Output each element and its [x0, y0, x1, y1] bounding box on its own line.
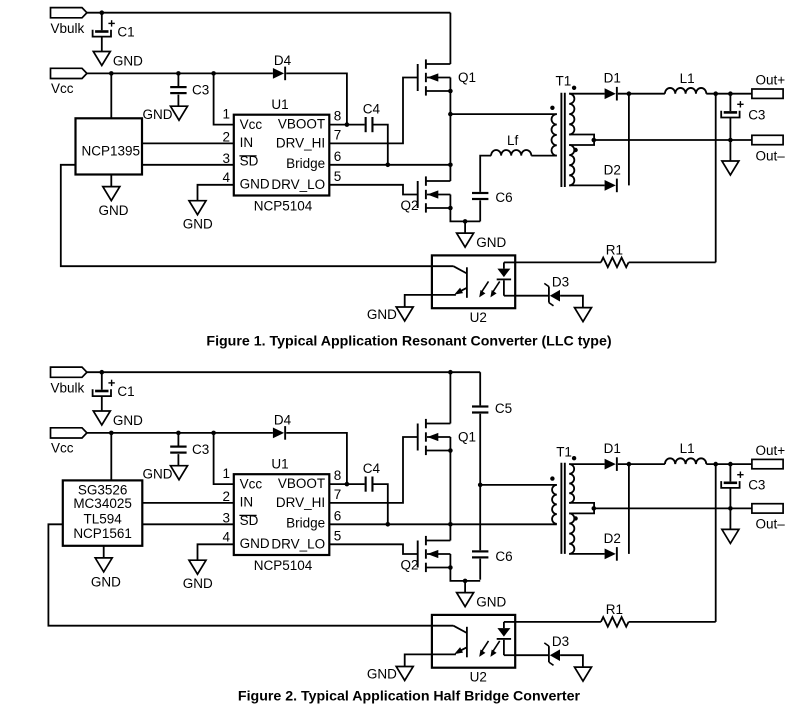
- junction half-bridge midpoint (fig1): [448, 112, 453, 117]
- ground U2 emitter (fig2): [396, 667, 413, 681]
- svg-text:L1: L1: [680, 441, 695, 456]
- wire DRV_HI to Q1 gate (fig2): [329, 437, 417, 503]
- wire C3 top lead (fig2): [177, 433, 179, 446]
- transformer T1 (fig1) core: [561, 93, 564, 187]
- ground below C1 (fig1): [93, 52, 110, 66]
- junction L1/R1 sense (fig2): [713, 462, 718, 467]
- ground below C3 (fig2): [171, 466, 188, 480]
- wire D1 cathode to D2 cathode (fig1): [628, 94, 630, 186]
- wire DRV_LO to Q2 gate (fig1): [329, 185, 417, 195]
- junction Q2 source: [448, 565, 453, 570]
- wire divider midpoint to T1 primary (fig2): [480, 484, 557, 486]
- wire Vbulk bus (fig1): [87, 12, 451, 14]
- ground U2 emitter (fig1): [396, 307, 413, 321]
- svg-text:Out–: Out–: [756, 517, 786, 532]
- svg-text:C4: C4: [363, 101, 381, 116]
- transformer T1 (fig1) secondary lower winding: [569, 145, 574, 185]
- connector Vcc (fig2): [51, 428, 87, 438]
- resistor R1 (fig1): [601, 258, 629, 268]
- junction Vcc/controller (fig2): [109, 431, 114, 436]
- svg-text:GND: GND: [183, 576, 213, 591]
- wire U2 emitter to ground (fig1): [405, 295, 432, 307]
- svg-text:NCP5104: NCP5104: [254, 558, 313, 573]
- wire Q2 source to C6 bottom (fig1): [450, 208, 480, 221]
- wire DRV_LO to Q2 gate (fig2): [329, 544, 417, 554]
- transistor Q2 (fig2): [418, 536, 451, 572]
- wire C3 out bottom lead (fig1): [729, 118, 731, 140]
- svg-text:Bridge: Bridge: [286, 516, 325, 531]
- svg-text:T1: T1: [556, 444, 572, 459]
- overline of SD (fig1): [239, 155, 256, 157]
- svg-text:Lf: Lf: [507, 133, 519, 148]
- wire C1 bottom lead (fig2): [101, 396, 103, 411]
- wire D1 to L1 (fig1): [618, 93, 665, 95]
- svg-text:2: 2: [222, 130, 230, 145]
- phase dot T1 secondary lower (fig1): [573, 148, 577, 152]
- svg-text:Figure 1. Typical Application: Figure 1. Typical Application Resonant C…: [206, 333, 611, 349]
- capacitor C5 (fig2): [472, 405, 488, 413]
- wire U2 LED cathode to D3 (fig2): [515, 654, 548, 656]
- svg-text:D2: D2: [604, 163, 621, 178]
- svg-text:NCP1561: NCP1561: [73, 526, 132, 541]
- svg-text:GND: GND: [143, 467, 173, 482]
- optocoupler U2 (fig2) box: [432, 615, 515, 668]
- svg-text:NCP1395: NCP1395: [82, 143, 141, 158]
- optocoupler U2 (fig2) phototransistor: [432, 626, 467, 658]
- svg-text:Vbulk: Vbulk: [51, 21, 85, 36]
- svg-text:Vcc: Vcc: [240, 117, 263, 132]
- transformer T1 (fig2) core: [561, 463, 564, 554]
- junction bridge/rail (fig1): [448, 163, 453, 168]
- wire output sense down to R1 (fig2): [715, 464, 717, 622]
- diode D1 (fig2): [605, 457, 618, 471]
- optocoupler U2 (fig1) LED: [497, 262, 516, 295]
- wire Vbulk to Q1 drain (fig1): [449, 13, 451, 64]
- svg-text:GND: GND: [476, 594, 506, 609]
- svg-text:GND: GND: [91, 575, 121, 590]
- svg-text:7: 7: [334, 127, 342, 142]
- ground below C3 (fig1): [171, 106, 188, 120]
- op-amp/driver U1 NCP5104 box (fig1): [234, 115, 329, 196]
- diode D1 (fig1): [605, 87, 618, 101]
- wire bridge to T1 primary bottom (fig2): [450, 523, 556, 525]
- phase dot T1 secondary upper (fig1): [572, 86, 576, 90]
- transformer T1 (fig2) primary winding: [552, 485, 557, 524]
- svg-text:T1: T1: [556, 73, 572, 88]
- svg-text:DRV_HI: DRV_HI: [276, 136, 325, 151]
- svg-text:5: 5: [334, 528, 342, 543]
- svg-text:VBOOT: VBOOT: [278, 476, 325, 491]
- wire C3 top lead (fig1): [177, 73, 179, 86]
- svg-text:U1: U1: [271, 456, 288, 471]
- svg-text:R1: R1: [606, 602, 623, 617]
- svg-text:Q2: Q2: [401, 557, 419, 572]
- svg-text:5: 5: [334, 169, 342, 184]
- connector Vbulk (fig1): [51, 8, 87, 18]
- svg-text:U1: U1: [271, 97, 288, 112]
- wire C5 to divider midpoint (fig2): [479, 414, 481, 485]
- connector Out- (fig2): [752, 504, 783, 513]
- wire Vcc bus to U1 pin 1 (fig1): [214, 73, 234, 124]
- plus sign C1 (fig2): [108, 380, 114, 386]
- wire Bridge pin 6 (fig2): [329, 523, 450, 525]
- junction Q2 source/ground (fig1): [463, 219, 468, 224]
- wire Bridge pin 6 (fig1): [329, 164, 450, 166]
- svg-text:GND: GND: [240, 177, 270, 192]
- capacitor C4 (fig2): [365, 477, 374, 492]
- wire Vcc bus (fig2): [87, 432, 273, 434]
- svg-text:C1: C1: [117, 24, 134, 39]
- wire secondary center tap bracket (fig2): [569, 503, 594, 514]
- wire feedback from controller to U2 (fig2): [48, 524, 432, 625]
- junction Q1 source: [448, 89, 453, 94]
- svg-text:Q2: Q2: [401, 198, 419, 213]
- wire D4 to VBOOT (fig2): [286, 433, 347, 484]
- svg-text:8: 8: [334, 109, 342, 124]
- svg-text:GND: GND: [367, 666, 397, 681]
- transformer T1 (fig1) primary winding: [552, 114, 557, 156]
- wire secondary center tap bracket (fig1): [569, 135, 594, 146]
- svg-text:Out–: Out–: [756, 148, 786, 163]
- diode D4 (fig1): [273, 67, 286, 81]
- junction Vcc/U1 pin1 (fig2): [211, 431, 216, 436]
- capacitor C1 (fig2): [93, 389, 111, 396]
- inductor L1 (fig1): [665, 88, 706, 94]
- svg-text:Q1: Q1: [458, 430, 476, 445]
- capacitor C3 decoupling (fig1): [170, 86, 186, 94]
- wire Vcc bus to U1 pin 1 (fig2): [214, 433, 234, 484]
- transistor Q1 (fig2): [418, 419, 451, 455]
- wire U2 emitter to ground (fig2): [405, 654, 432, 666]
- junction center tap (fig1): [592, 138, 597, 143]
- svg-text:TL594: TL594: [83, 511, 122, 526]
- phase dot T1 secondary lower (fig2): [573, 516, 577, 520]
- capacitor C6 (fig1): [472, 192, 488, 200]
- svg-text:Bridge: Bridge: [286, 156, 325, 171]
- wire Q2 source to C6 bottom (fig2): [450, 568, 480, 581]
- junction Vcc/C3 (fig1): [176, 71, 181, 76]
- phase dot T1 primary (fig1): [550, 106, 554, 110]
- wire C1 top lead (fig2): [101, 372, 103, 390]
- optocoupler U2 (fig1) light arrows: [479, 281, 500, 297]
- junction L1/C3 out (fig2): [728, 462, 733, 467]
- junction Vbulk/C1 (fig1): [100, 10, 105, 15]
- ground below controller (fig1): [103, 175, 120, 201]
- svg-text:GND: GND: [367, 307, 397, 322]
- svg-text:L1: L1: [680, 71, 695, 86]
- wire U1 pin 8 stub (fig1): [329, 124, 364, 126]
- svg-text:MC34025: MC34025: [73, 496, 132, 511]
- connector Out+ (fig2): [752, 459, 783, 468]
- wire controller to U1 SD (fig1): [142, 164, 234, 166]
- svg-text:R1: R1: [606, 242, 623, 257]
- wire R1 to U2 LED (fig2): [515, 621, 601, 623]
- junction Vcc/C3 (fig2): [176, 431, 181, 436]
- junction Vbulk/C1 (fig2): [100, 370, 105, 375]
- svg-text:Vbulk: Vbulk: [51, 381, 85, 396]
- ground of half bridge (fig1): [457, 221, 474, 247]
- svg-text:NCP5104: NCP5104: [254, 198, 313, 213]
- ground of half bridge (fig2): [457, 581, 474, 607]
- wire T1 primary bottom to Lf (fig1): [531, 155, 557, 157]
- wire C1 bottom lead (fig1): [101, 37, 103, 52]
- wire D3 anode to ground (fig2): [560, 655, 583, 667]
- junction VBOOT node (fig2): [345, 482, 350, 487]
- wire C3 out top lead (fig2): [729, 464, 731, 481]
- wire controller to U1 SD (fig2): [142, 523, 234, 525]
- diode D2 (fig2): [605, 547, 618, 561]
- wire C3 out top lead (fig1): [729, 94, 731, 111]
- controller SG3526/MC34025/TL594/NCP1561 (fig2): [63, 480, 143, 545]
- wire C4 to bridge node (fig2): [374, 484, 388, 524]
- svg-text:Out+: Out+: [756, 443, 786, 458]
- svg-text:Figure 2. Typical Application: Figure 2. Typical Application Half Bridg…: [238, 688, 581, 704]
- junction Vcc/controller (fig1): [109, 71, 114, 76]
- wire R1 right lead (fig2): [629, 621, 716, 623]
- wire center tap to Out- (fig1): [594, 139, 752, 141]
- wire DRV_HI to Q1 gate (fig1): [329, 78, 417, 144]
- svg-text:U2: U2: [470, 670, 487, 685]
- wire feedback from controller to U2 (fig1): [61, 165, 432, 266]
- junction L1/R1 sense (fig1): [713, 91, 718, 96]
- wire R1 right lead (fig1): [629, 261, 716, 263]
- wire U1 pin 4 to ground (fig2): [198, 544, 234, 560]
- wire Q1 source to Q2 drain rail (fig1): [449, 91, 451, 181]
- svg-text:D3: D3: [552, 274, 569, 289]
- wire C4 to bridge node (fig1): [374, 125, 388, 165]
- ground of D3 (fig1): [575, 308, 592, 322]
- svg-text:Vcc: Vcc: [51, 81, 74, 96]
- ground U1 pin 4 (fig1): [189, 201, 206, 215]
- zener diode D3 (fig1): [544, 283, 560, 305]
- phase dot T1 secondary upper (fig2): [572, 456, 576, 460]
- wire D1 to L1 (fig2): [618, 463, 665, 465]
- inductor L1 (fig2): [665, 458, 706, 464]
- wire Vbulk to Q1 drain (fig2): [449, 372, 451, 423]
- transformer T1 (fig2) secondary upper winding: [569, 464, 574, 503]
- svg-text:GND: GND: [240, 536, 270, 551]
- capacitor C3 output (fig1): [721, 111, 739, 118]
- optocoupler U2 (fig1) box: [432, 255, 515, 308]
- svg-text:6: 6: [334, 508, 342, 523]
- diode D2 (fig1): [605, 179, 618, 193]
- transistor Q1 (fig1): [418, 59, 451, 95]
- connector Out+ (fig1): [752, 89, 783, 98]
- svg-text:D1: D1: [604, 441, 621, 456]
- wire secondary top to D1 (fig2): [569, 463, 604, 465]
- capacitor C6 (fig2): [472, 550, 488, 558]
- transformer T1 (fig2) secondary lower winding: [569, 513, 574, 553]
- svg-text:Vcc: Vcc: [51, 441, 74, 456]
- capacitor C3 output (fig2): [721, 481, 739, 488]
- phase dot T1 primary (fig2): [550, 476, 554, 480]
- svg-text:VBOOT: VBOOT: [278, 117, 325, 132]
- transistor Q2 (fig1): [418, 176, 451, 212]
- wire C3 bottom lead (fig1): [177, 95, 179, 107]
- wire secondary top to D1 (fig1): [569, 93, 604, 95]
- svg-text:6: 6: [334, 149, 342, 164]
- plus sign C3 out (fig2): [737, 472, 743, 478]
- svg-text:GND: GND: [476, 235, 506, 250]
- svg-text:GND: GND: [183, 216, 213, 231]
- svg-text:D1: D1: [604, 71, 621, 86]
- svg-text:1: 1: [222, 106, 230, 121]
- connector Out- (fig1): [752, 135, 783, 144]
- svg-text:8: 8: [334, 468, 342, 483]
- junction Q1 source: [448, 448, 453, 453]
- capacitor C4 (fig1): [365, 117, 374, 132]
- svg-text:U2: U2: [470, 310, 487, 325]
- capacitor C1 (fig1): [93, 30, 111, 37]
- optocoupler U2 (fig2) light arrows: [479, 641, 500, 657]
- optocoupler U2 (fig2) LED: [497, 622, 516, 655]
- wire controller to U1 IN (fig1): [142, 142, 234, 144]
- capacitor C3 decoupling (fig2): [170, 446, 186, 454]
- wire C6 bottom lead (fig2): [479, 559, 481, 580]
- diode D4 (fig2): [273, 426, 286, 440]
- svg-text:Q1: Q1: [458, 70, 476, 85]
- wire secondary bottom to D2 (fig2): [569, 553, 604, 555]
- svg-text:IN: IN: [240, 494, 254, 509]
- svg-text:D2: D2: [604, 531, 621, 546]
- wire divider midpoint to C6 (fig2): [479, 485, 481, 550]
- wire Vcc bus (fig1): [87, 72, 273, 74]
- wire D1 cathode to D2 cathode (fig2): [628, 464, 630, 554]
- svg-text:2: 2: [222, 489, 230, 504]
- junction divider midpoint (fig2): [478, 483, 483, 488]
- ground U1 pin 4 (fig2): [189, 560, 206, 574]
- svg-text:C4: C4: [363, 461, 381, 476]
- wire C3 bottom lead (fig2): [177, 454, 179, 466]
- svg-text:C1: C1: [117, 384, 134, 399]
- overline of SD (fig2): [239, 514, 256, 516]
- svg-text:DRV_LO: DRV_LO: [271, 177, 325, 192]
- junction D1/D2 cathodes (fig1): [627, 91, 632, 96]
- svg-text:C6: C6: [495, 549, 512, 564]
- svg-text:D3: D3: [552, 634, 569, 649]
- ground of D3 (fig2): [575, 667, 592, 681]
- svg-text:GND: GND: [143, 107, 173, 122]
- plus sign C1 (fig1): [108, 20, 114, 26]
- wire secondary bottom to D2 (fig1): [569, 184, 604, 186]
- ground of output (fig2): [722, 508, 739, 543]
- transformer T1 (fig1) secondary upper winding: [569, 94, 574, 135]
- controller NCP1395 (fig1): [76, 118, 143, 174]
- junction bridge/rail (fig2): [448, 522, 453, 527]
- svg-text:Out+: Out+: [756, 72, 786, 87]
- wire Vbulk bus (fig2): [87, 371, 480, 373]
- wire Q1 source to Q2 drain rail (fig2): [449, 451, 451, 541]
- junction Vcc/U1 pin1 (fig1): [211, 71, 216, 76]
- ground below C1 (fig2): [93, 411, 110, 425]
- svg-text:GND: GND: [99, 203, 129, 218]
- ground below controller (fig2): [95, 546, 112, 572]
- svg-text:Vcc: Vcc: [240, 476, 263, 491]
- wire Vcc to controller (fig2): [110, 433, 112, 481]
- connector Vcc (fig1): [51, 68, 87, 78]
- wire U1 pin 4 to ground (fig1): [198, 185, 234, 201]
- wire C3 out bottom lead (fig2): [729, 488, 731, 508]
- svg-text:C5: C5: [495, 401, 512, 416]
- junction Q2 source/ground (fig2): [463, 579, 468, 584]
- wire C6 bottom lead (fig1): [479, 200, 481, 221]
- svg-text:C3: C3: [192, 442, 209, 457]
- zener diode D3 (fig2): [544, 643, 560, 665]
- connector Vbulk (fig2): [51, 367, 87, 377]
- junction D1/D2 cathodes (fig2): [627, 462, 632, 467]
- wire L1 to Out+ (fig2): [706, 463, 752, 465]
- junction Q2 source: [448, 206, 453, 211]
- svg-text:DRV_LO: DRV_LO: [271, 536, 325, 551]
- wire midpoint to T1 primary (fig1): [450, 113, 556, 115]
- plus sign C3 out (fig1): [737, 101, 743, 107]
- wire R1 to U2 LED (fig1): [515, 261, 601, 263]
- junction center tap (fig2): [592, 506, 597, 511]
- wire L1 to Out+ (fig1): [706, 93, 752, 95]
- svg-text:D4: D4: [274, 413, 292, 428]
- svg-text:D4: D4: [274, 53, 292, 68]
- junction C4/bridge (fig1): [386, 163, 391, 168]
- svg-text:DRV_HI: DRV_HI: [276, 495, 325, 510]
- optocoupler U2 (fig1) phototransistor: [432, 266, 467, 298]
- junction C4/bridge (fig2): [386, 522, 391, 527]
- svg-text:1: 1: [222, 466, 230, 481]
- wire U1 pin 8 stub (fig2): [329, 483, 364, 485]
- wire Vcc to controller (fig1): [110, 73, 112, 118]
- svg-text:7: 7: [334, 487, 342, 502]
- resistor R1 (fig2): [601, 617, 629, 627]
- wire C1 top lead (fig1): [101, 13, 103, 31]
- wire center tap to Out- (fig2): [594, 507, 752, 509]
- svg-text:GND: GND: [113, 413, 143, 428]
- junction Vbulk bus / C5 branch (fig2): [448, 370, 453, 375]
- wire D4 to VBOOT (fig1): [286, 73, 347, 124]
- wire U2 LED cathode to D3 (fig1): [515, 295, 548, 297]
- inductor Lf (fig1): [491, 150, 531, 156]
- ground of output (fig1): [722, 140, 739, 175]
- svg-text:4: 4: [222, 529, 230, 544]
- svg-text:GND: GND: [113, 53, 143, 68]
- svg-text:3: 3: [222, 511, 230, 526]
- junction C3 out/Out- (fig2): [728, 506, 733, 511]
- junction L1/C3 out (fig1): [728, 91, 733, 96]
- wire output sense down to R1 (fig1): [715, 94, 717, 263]
- svg-text:3: 3: [222, 151, 230, 166]
- svg-text:IN: IN: [240, 135, 254, 150]
- svg-text:4: 4: [222, 170, 230, 185]
- junction VBOOT node (fig1): [345, 122, 350, 127]
- op-amp/driver U1 NCP5104 box (fig2): [234, 474, 329, 555]
- svg-text:C6: C6: [495, 190, 512, 205]
- svg-text:C3: C3: [192, 83, 209, 98]
- wire C5 top lead (fig2): [479, 372, 481, 405]
- wire Lf to C6 (fig1): [480, 156, 491, 192]
- junction C3 out/Out- (fig1): [728, 138, 733, 143]
- svg-text:C3: C3: [748, 478, 765, 493]
- wire controller to U1 IN (fig2): [142, 502, 234, 504]
- wire D3 anode to ground (fig1): [560, 296, 583, 308]
- svg-text:C3: C3: [748, 107, 765, 122]
